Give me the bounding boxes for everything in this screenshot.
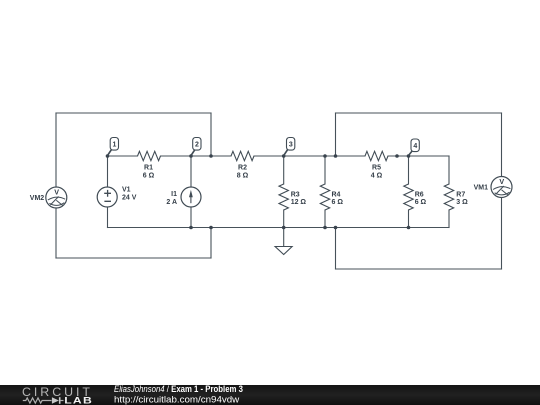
- junction node1: [106, 154, 110, 158]
- node flag 4: [409, 139, 420, 156]
- svg-text:24 V: 24 V: [122, 194, 137, 201]
- wire R6 bottom lead: [408, 210, 410, 228]
- svg-text:12 Ω: 12 Ω: [291, 199, 307, 206]
- wire right loop bottom riser: [335, 228, 337, 270]
- wire I1 top lead: [190, 156, 192, 187]
- wire left loop left lower: [55, 208, 57, 258]
- svg-text:1: 1: [113, 142, 117, 149]
- svg-text:2 A: 2 A: [166, 199, 177, 206]
- junction right riser bottom: [334, 226, 338, 230]
- wire R6 top lead: [408, 156, 410, 184]
- wire V1 bottom lead: [107, 207, 109, 228]
- svg-text:2: 2: [195, 142, 199, 149]
- svg-text:3 Ω: 3 Ω: [456, 199, 468, 206]
- svg-text:R4: R4: [332, 192, 341, 199]
- wire left loop bottom: [56, 257, 211, 259]
- logo diode: [52, 397, 61, 404]
- junction node3: [282, 154, 286, 158]
- svg-text:8 Ω: 8 Ω: [237, 172, 249, 179]
- svg-text:VM2: VM2: [30, 195, 45, 202]
- junction node2: [189, 154, 193, 158]
- wire top rail node1 to R1: [108, 155, 138, 157]
- junction R4 top: [323, 154, 327, 158]
- wire R3 top lead: [283, 156, 285, 184]
- wire top rail R1 to R2: [161, 155, 232, 157]
- svg-text:R2: R2: [238, 165, 247, 172]
- wire left loop left upper: [55, 113, 57, 187]
- logo resistor zigzag: [23, 398, 64, 403]
- wire left loop riser to bottom rail: [210, 228, 212, 259]
- svg-text:VM1: VM1: [474, 185, 489, 192]
- svg-text:6 Ω: 6 Ω: [143, 172, 155, 179]
- svg-text:6 Ω: 6 Ω: [332, 199, 344, 206]
- wire bottom rail: [108, 227, 450, 229]
- resistor R1: [138, 151, 161, 160]
- svg-text:V: V: [54, 188, 59, 197]
- wire top rail R5 to R7: [388, 155, 449, 157]
- svg-text:R5: R5: [372, 165, 381, 172]
- ground: [275, 247, 292, 255]
- junction ground: [282, 226, 286, 230]
- resistor R7: [444, 184, 453, 210]
- node flag 3: [284, 138, 295, 156]
- wire left loop riser to top rail: [210, 113, 212, 156]
- wire V1 top lead: [107, 156, 109, 187]
- junction I1 bottom: [189, 226, 193, 230]
- svg-text:LAB: LAB: [64, 396, 93, 405]
- wire right loop top: [336, 112, 502, 114]
- wire R7 bottom lead: [448, 210, 450, 228]
- wire ground stem: [283, 228, 285, 247]
- svg-text:R3: R3: [291, 192, 300, 199]
- junction R5 right: [395, 154, 399, 158]
- resistor R2: [231, 151, 254, 160]
- svg-text:http://circuitlab.com/cn94vdw: http://circuitlab.com/cn94vdw: [114, 394, 239, 405]
- resistor R5: [365, 151, 388, 160]
- wire right loop bottom: [336, 268, 502, 270]
- svg-text:I1: I1: [171, 191, 177, 198]
- node flag 2: [191, 138, 201, 156]
- voltmeter VM1: [491, 177, 512, 198]
- wire right loop top riser: [335, 113, 337, 156]
- junction R6 bottom: [407, 226, 411, 230]
- svg-text:6 Ω: 6 Ω: [415, 199, 427, 206]
- wire left loop top: [56, 112, 211, 114]
- voltage source V1: [97, 187, 117, 207]
- svg-text:EliasJohnson4 / Exam 1 - Probl: EliasJohnson4 / Exam 1 - Problem 3: [114, 383, 243, 394]
- svg-text:3: 3: [289, 142, 293, 149]
- wire R3 bottom lead: [283, 210, 285, 228]
- resistor R3: [279, 184, 288, 210]
- svg-text:4: 4: [413, 143, 417, 150]
- wire top rail R2 to R5: [254, 155, 365, 157]
- wire I1 bottom lead: [190, 207, 192, 228]
- junction right riser top: [334, 154, 338, 158]
- node flag 1: [108, 138, 119, 156]
- wire VM1 top lead: [501, 113, 503, 177]
- resistor R6: [404, 184, 413, 210]
- wire R7 top lead: [448, 156, 450, 184]
- svg-text:V: V: [499, 177, 504, 186]
- junction left riser bottom: [209, 226, 213, 230]
- junction R4 bottom: [323, 226, 327, 230]
- current source I1: [181, 187, 201, 207]
- voltmeter VM2: [46, 187, 67, 208]
- svg-text:4 Ω: 4 Ω: [371, 172, 383, 179]
- wire R4 top lead: [324, 156, 326, 184]
- wire VM1 bottom lead: [501, 198, 503, 270]
- resistor R4: [320, 184, 329, 210]
- svg-text:R6: R6: [415, 192, 424, 199]
- svg-text:V1: V1: [122, 186, 131, 193]
- wire R4 bottom lead: [324, 210, 326, 228]
- junction node4: [407, 154, 411, 158]
- svg-text:R1: R1: [144, 165, 153, 172]
- junction left riser top: [209, 154, 213, 158]
- svg-text:R7: R7: [456, 192, 465, 199]
